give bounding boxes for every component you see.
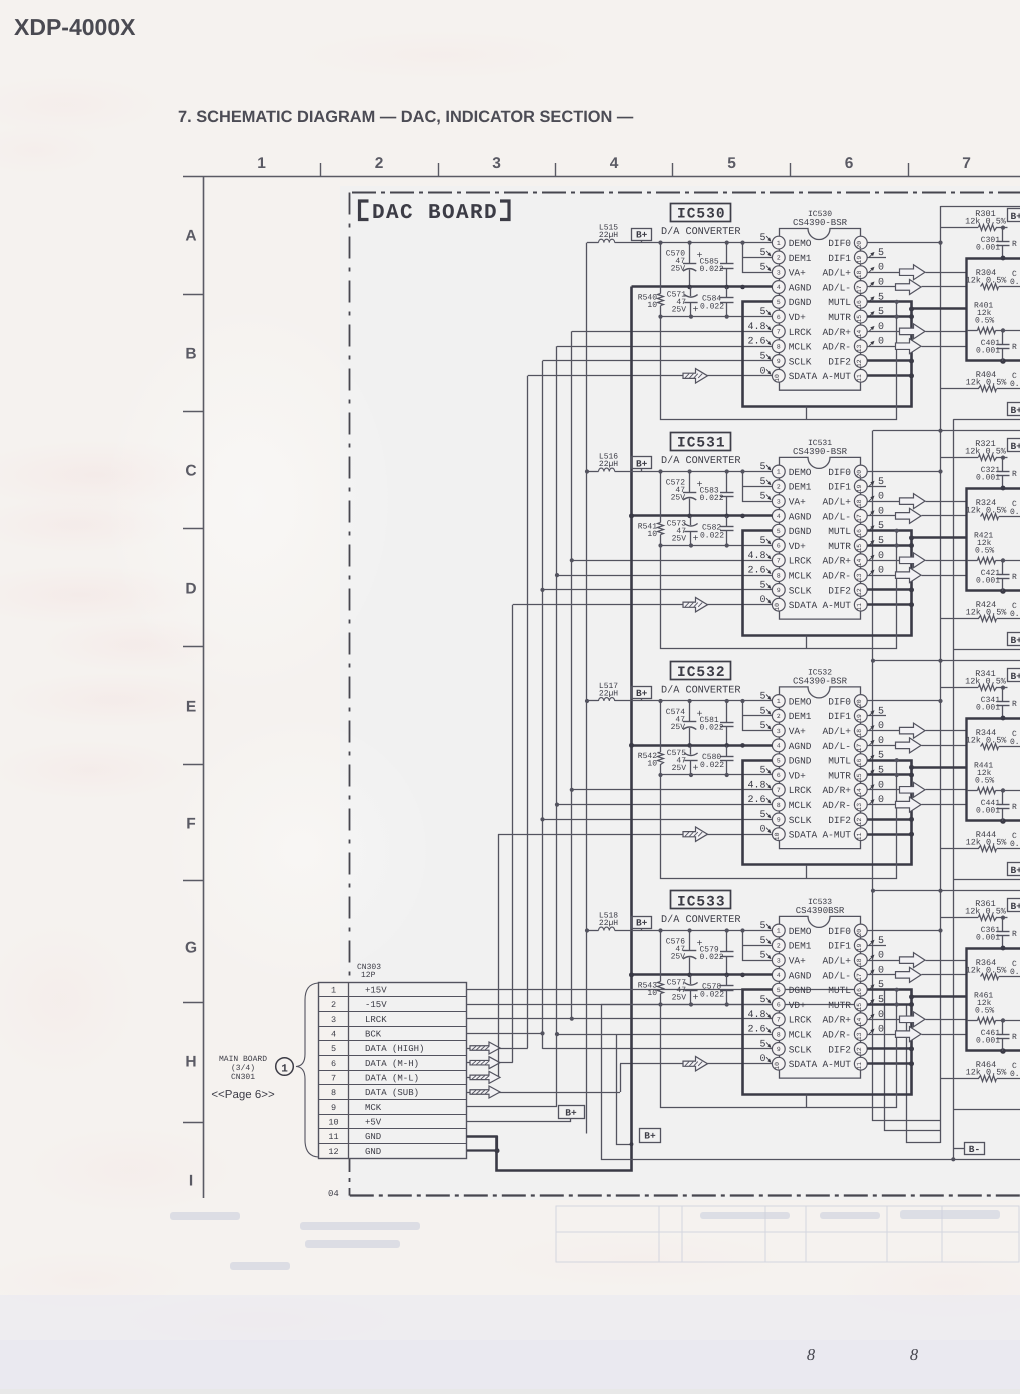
svg-text:10: 10 [647,760,657,769]
svg-text:3: 3 [777,728,781,735]
svg-text:12k 0.5%: 12k 0.5% [966,1068,1008,1078]
svg-text:13: 13 [856,573,863,581]
svg-text:+15V: +15V [365,986,387,996]
IC531 B+ rail junction [688,469,692,473]
IC532 DIF1 stub [867,715,886,717]
svg-text:AD/R+: AD/R+ [822,556,851,567]
IC530 AGND rail (thick) [632,285,773,288]
bottom lavender tint strip [0,1295,1020,1389]
IC532 pin 9 SCLK [772,813,785,826]
IC533 AGND rail (thick) [632,973,773,976]
IC533 pin 10 SDATA [772,1057,785,1070]
svg-text:20: 20 [856,470,863,478]
IC531 pin 16 MUTL [854,524,867,537]
svg-text:DIF1: DIF1 [828,253,851,264]
IC532 AGND rail (thick) [632,744,773,747]
wire DATA SUB to IC533 pin10 [620,1063,772,1065]
IC531 pin 10 SDATA [772,598,785,611]
svg-text:18: 18 [856,729,863,737]
svg-text:17: 17 [856,514,863,522]
IC533 DGND mute loop (thick) [743,990,912,1095]
svg-text:DEMO: DEMO [789,696,812,707]
svg-text:13: 13 [856,803,863,811]
IC532 pin 17 AD/L- [854,739,867,752]
svg-text:6: 6 [777,314,781,321]
power symbol B+ (+5V) [559,1106,585,1119]
svg-text:5: 5 [777,528,781,535]
svg-text:DATA (M-H): DATA (M-H) [365,1059,419,1069]
svg-text:0.: 0. [1010,968,1020,977]
svg-text:19: 19 [856,714,863,722]
svg-text:AD/R-: AD/R- [822,800,851,811]
svg-text:VA+: VA+ [789,956,806,967]
svg-text:12: 12 [856,818,863,826]
IC532 pin 15 MUTR [854,769,867,782]
svg-text:4: 4 [777,513,781,520]
svg-text:10: 10 [774,832,781,840]
IC530 pin 10 SDATA [772,369,785,382]
wire DATA M-H to IC531 pin10 [513,604,773,606]
IC533 pin 6 VD+ [772,998,785,1011]
svg-text:G: G [185,940,197,957]
svg-text:AD/L+: AD/L+ [822,726,851,737]
svg-text:DIF1: DIF1 [828,711,851,722]
svg-text:0.: 0. [1010,278,1020,287]
svg-text:18: 18 [856,958,863,966]
capacitor C573 [690,516,692,525]
IC530 pin 8 MCLK [772,340,785,353]
IC530 pin 16 MUTL [854,295,867,308]
connector row line 4 [319,1026,467,1028]
IC532 pin 20 DIF0 [854,695,867,708]
IC533 B+ rail junction [658,928,662,932]
svg-text:8: 8 [807,1345,816,1364]
ghost print-through text [170,1210,1000,1270]
svg-text:AD/L-: AD/L- [822,282,851,293]
IC533 AD/R- signal arrow [867,1034,895,1036]
wire MCLK bus vertical [556,346,558,1106]
svg-text:11: 11 [328,1132,338,1142]
svg-text:0.022: 0.022 [700,761,724,770]
IC533 B+ rail wire [587,930,599,932]
svg-text:LRCK: LRCK [789,327,812,338]
wire +15V row1 [467,990,941,1131]
svg-text:GND: GND [365,1147,381,1157]
schematic area tint [340,186,1020,1200]
svg-text:12: 12 [328,1147,338,1157]
IC532 B+ rail wire [587,700,599,702]
svg-text:16: 16 [856,300,863,308]
wire SCLK bus vertical [542,361,544,1049]
svg-text:DGND: DGND [789,297,812,308]
IC533 B+ rail junction [688,928,692,932]
svg-text:DEM1: DEM1 [789,482,812,493]
IC531 pin 14 AD/R+ [854,554,867,567]
svg-text:5: 5 [878,307,884,318]
svg-text:10: 10 [647,989,657,998]
wire right box top edge [953,419,1020,421]
svg-text:4.8: 4.8 [747,780,765,791]
svg-text:3: 3 [777,498,781,505]
svg-text:11: 11 [856,1062,863,1070]
svg-text:I: I [189,1173,193,1190]
grid column tick [672,163,674,177]
svg-text:25V: 25V [671,494,686,503]
IC532 DGND mute loop (thick) [743,761,912,865]
IC532 pin 13 AD/R- [854,798,867,811]
svg-text:MUTR: MUTR [828,770,851,781]
svg-text:0.022: 0.022 [700,991,724,1000]
svg-text:0: 0 [759,595,765,606]
svg-text:AD/R+: AD/R+ [822,327,851,338]
svg-text:5: 5 [777,757,781,764]
svg-text:DIF1: DIF1 [828,941,851,952]
svg-text:2: 2 [777,943,781,950]
svg-text:0.022: 0.022 [700,265,724,274]
wire right section border x=873 [873,431,941,1121]
IC530 B+ rail junction [658,241,662,245]
IC531 pin 4 AGND [772,510,785,523]
svg-text:MUTR: MUTR [828,312,851,323]
svg-text:5: 5 [878,477,884,488]
svg-text:19: 19 [856,256,863,264]
svg-text:DIF1: DIF1 [828,482,851,493]
IC531 mute feed wire (thick) [912,536,968,539]
svg-text:12k 0.5%: 12k 0.5% [965,677,1007,687]
IC533 AD/R+ signal arrow [867,1019,899,1021]
IC532 pin 4 AGND [772,739,785,752]
wire -15V row2 [467,1005,941,1143]
IC531 VD+ rail wire [661,545,773,547]
IC533 pin 13 AD/R- [854,1028,867,1041]
IC531 enclosure wire [661,531,897,649]
IC531 pin 3 VA+ [772,495,785,508]
svg-text:DIF2: DIF2 [828,585,851,596]
wire right box top edge [953,879,1020,881]
svg-text:6: 6 [845,155,854,172]
svg-text:MUTL: MUTL [828,756,851,767]
IC533 pin 8 MCLK [772,1028,785,1041]
connector row line 3 [319,1011,467,1013]
svg-text:10: 10 [774,1062,781,1070]
svg-text:17: 17 [856,285,863,293]
IC532 A-MUT wire (thick) [867,833,911,836]
IC530 pin 13 AD/R- [854,340,867,353]
svg-text:(3/4): (3/4) [231,1064,255,1073]
wire B- stub [953,1148,964,1150]
svg-text:4: 4 [331,1030,336,1040]
IC530 pin 14 AD/R+ [854,325,867,338]
svg-text:0.022: 0.022 [700,494,724,503]
svg-text:5: 5 [759,810,765,821]
IC532 B+ rail junction [688,699,692,703]
svg-text:14: 14 [856,1018,863,1026]
wire DATA HIGH to IC530 pin10 [528,375,773,377]
power symbol B+ IC530 [632,229,652,241]
wire DATA M-L row7 [467,1077,498,1079]
IC530 AD/R- signal arrow [867,346,895,348]
svg-text:2: 2 [375,155,384,172]
DAC board label [360,201,510,225]
svg-text:16: 16 [856,988,863,996]
connector row line 5 [319,1040,467,1042]
IC532 pin 8 MCLK [772,798,785,811]
svg-text:25V: 25V [671,953,686,962]
connector row line 12 [319,1143,467,1145]
IC533 pin 7 LRCK [772,1013,785,1026]
svg-text:3: 3 [777,269,781,276]
IC531 SDATA signal arrow [683,597,708,612]
svg-text:8: 8 [331,1088,336,1098]
svg-text:2.6: 2.6 [747,566,765,577]
svg-text:9: 9 [777,587,781,594]
IC531 pin 13 AD/R- [854,569,867,582]
svg-text:4.8: 4.8 [747,322,765,333]
DAC board border bottom (dash-dot) [350,1194,1020,1196]
svg-text:8: 8 [777,1031,781,1038]
svg-text:19: 19 [856,485,863,493]
svg-text:10: 10 [647,301,657,310]
svg-text:0.5%: 0.5% [975,777,994,786]
IC531 DGND mute loop (thick) [743,531,912,636]
IC532 DIF2 wire (thick) [867,818,911,821]
svg-text:VD+: VD+ [789,1000,806,1011]
svg-text:A-MUT: A-MUT [822,371,851,382]
svg-text:15: 15 [856,315,863,323]
svg-text:+: + [693,534,699,545]
svg-text:VD+: VD+ [789,312,806,323]
grid row tick [183,411,204,413]
IC532 DIF0 wire [867,700,940,702]
svg-text:5: 5 [759,936,765,947]
svg-text:DIF0: DIF0 [828,467,851,478]
svg-text:25V: 25V [671,265,686,274]
svg-text:6: 6 [331,1059,336,1069]
junction SCLK IC532 [540,817,544,821]
svg-text:10: 10 [647,530,657,539]
IC530 enclosure wire [661,302,897,420]
svg-text:5: 5 [878,980,884,991]
svg-text:20: 20 [856,241,863,249]
brace to main board [296,983,318,1157]
svg-text:4: 4 [777,743,781,750]
IC531 AD/L+ signal arrow [867,501,899,503]
IC532 B+ rail junction [740,699,744,703]
IC530 B+ rail junction [740,241,744,245]
svg-text:DIF0: DIF0 [828,696,851,707]
capacitor C584 [726,287,728,298]
svg-text:DATA (M-L): DATA (M-L) [365,1074,419,1084]
svg-text:14: 14 [856,559,863,567]
svg-text:B+: B+ [644,1131,656,1142]
connector row line 10 [319,1114,467,1116]
svg-text:5: 5 [878,536,884,547]
grid row tick [183,528,204,530]
svg-text:12: 12 [856,359,863,367]
IC531 pin 7 LRCK [772,554,785,567]
svg-text:MAIN BOARD: MAIN BOARD [219,1055,267,1064]
power symbol B+ block2 top [1008,439,1020,452]
capacitor C585 [726,243,728,264]
svg-text:5: 5 [759,352,765,363]
IC532 DGND tie stub [806,865,808,878]
svg-text:B+: B+ [1011,901,1020,912]
svg-text:10: 10 [774,374,781,382]
svg-text:R: R [1012,700,1017,709]
svg-text:AD/R-: AD/R- [822,571,851,582]
svg-text:2.6: 2.6 [747,337,765,348]
junction B+ trunk inductor [585,928,589,932]
wire DATA M-H vertical [512,605,514,1063]
IC530 VA+ branch wire [743,243,773,273]
svg-text:12: 12 [856,1047,863,1055]
svg-text:5: 5 [759,692,765,703]
svg-text:+5V: +5V [365,1118,382,1128]
svg-text:DEMO: DEMO [789,467,812,478]
feedback box block4 (thick) [967,949,1020,1051]
junction MCLK IC531 [555,573,559,577]
capacitor C571 [690,287,692,296]
svg-text:VD+: VD+ [789,541,806,552]
junction GND AGND rail [629,513,634,518]
svg-text:SDATA: SDATA [789,1059,818,1070]
capacitor C570 [689,243,691,264]
svg-text:20: 20 [856,699,863,707]
IC532 AD/R+ signal arrow [867,789,899,791]
IC533 DGND tie stub [806,1095,808,1108]
IC531 AD/R- signal arrow [867,575,895,577]
svg-text:SDATA: SDATA [789,830,818,841]
svg-text:5: 5 [759,1039,765,1050]
connector row line 9 [319,1099,467,1101]
IC531 pin 19 DIF1 [854,480,867,493]
IC531 body outline [780,457,861,471]
svg-text:5: 5 [727,155,736,172]
wire DATA HIGH vertical [527,376,529,1048]
junction B+ trunk inductor [585,469,589,473]
grid column tick [438,163,440,177]
IC531 pin 11 A-MUT [854,598,867,611]
IC533 AD/L+ signal arrow [867,960,899,962]
svg-text:6: 6 [777,543,781,550]
IC530 DGND mute loop (thick) [743,302,912,407]
IC533 AD/L- signal arrow [867,974,895,976]
svg-text:0.022: 0.022 [700,953,724,962]
grid row tick [183,646,204,648]
IC532 pin 6 VD+ [772,769,785,782]
svg-text:5: 5 [759,233,765,244]
svg-text:2.6: 2.6 [747,795,765,806]
capacitor C582 [726,516,728,527]
wire DATA M-H row6 [467,1062,513,1064]
IC531 pin 9 SCLK [772,584,785,597]
svg-text:R: R [1012,573,1017,582]
svg-text:0.: 0. [1010,380,1020,389]
IC532 pin 14 AD/R+ [854,783,867,796]
D/A converter IC530 label box [671,204,731,222]
svg-text:5: 5 [759,951,765,962]
wire LRCK bus vertical [571,331,573,1018]
svg-text:15: 15 [856,773,863,781]
IC530 DGND tie stub [806,407,808,420]
svg-text:12k 0.5%: 12k 0.5% [965,907,1007,917]
power symbol B+ block4 top [1008,899,1020,912]
svg-text:AD/L-: AD/L- [822,511,851,522]
capacitor C575 [690,745,692,754]
IC533 pin 2 DEM1 [772,939,785,952]
DAC board border left upper (dash-dot) [349,193,351,983]
IC532 enclosure wire [661,761,897,879]
svg-text:7: 7 [777,787,781,794]
IC530 pin 2 DEM1 [772,251,785,264]
feedback box block2 (thick) [967,489,1020,591]
svg-text:1: 1 [777,240,781,247]
ghost print-through table [556,1206,1019,1262]
power symbol B+ block1 bottom [1008,403,1020,416]
IC530 MUTR wire (thick) [867,315,911,318]
svg-text:DIF0: DIF0 [828,926,851,937]
svg-text:5: 5 [759,263,765,274]
svg-text:DATA (HIGH): DATA (HIGH) [365,1044,424,1054]
grid column tick [555,163,557,177]
IC531 pin 20 DIF0 [854,465,867,478]
svg-text:11: 11 [856,832,863,840]
svg-text:4: 4 [610,155,619,172]
svg-text:R: R [1012,930,1017,939]
connector CN303 table outline [319,983,467,1159]
IC532 B+ rail junction [725,699,729,703]
wire GND row12 [467,1149,497,1151]
svg-text:13: 13 [856,1032,863,1040]
svg-text:<<Page 6>>: <<Page 6>> [211,1089,275,1101]
svg-text:B+: B+ [636,229,648,240]
svg-text:16: 16 [856,529,863,537]
svg-text:B+: B+ [636,917,648,928]
IC531 VA+ branch wire [743,472,773,502]
svg-text:SCLK: SCLK [789,585,812,596]
wire B- return line from IC533 VD+ rail [602,1005,1020,1160]
svg-text:D/A CONVERTER: D/A CONVERTER [661,455,740,467]
reference circle 1 [276,1058,294,1076]
svg-text:D/A CONVERTER: D/A CONVERTER [661,226,740,238]
svg-text:B-: B- [969,1144,980,1155]
wire LRCK to IC530 pin7 [572,331,773,333]
svg-text:DAC BOARD: DAC BOARD [372,202,498,225]
resistor R542 [660,701,662,752]
svg-text:12k 0.5%: 12k 0.5% [966,608,1008,618]
svg-text:LRCK: LRCK [789,556,812,567]
grid column tick [790,163,792,177]
IC531 B+ rail junction [740,469,744,473]
svg-text:SDATA: SDATA [789,600,818,611]
wire DATA M-L to IC532 pin10 [498,834,772,836]
capacitor C579 [726,931,728,952]
IC530 pin 5 DGND [772,295,785,308]
svg-text:0: 0 [759,366,765,377]
svg-text:4.8: 4.8 [747,1010,765,1021]
svg-text:7: 7 [331,1074,336,1084]
svg-text:C: C [185,463,196,480]
svg-text:10: 10 [328,1118,338,1128]
IC532 pin 16 MUTL [854,754,867,767]
IC530 pin 11 A-MUT [854,369,867,382]
IC533 mute feed wire (thick) [912,995,968,998]
IC531 AGND rail (thick) [632,514,773,517]
IC532 pin 18 AD/L+ [854,724,867,737]
wire right section line [873,660,1020,662]
IC530 pin 9 SCLK [772,355,785,368]
svg-text:0.: 0. [1010,840,1020,849]
